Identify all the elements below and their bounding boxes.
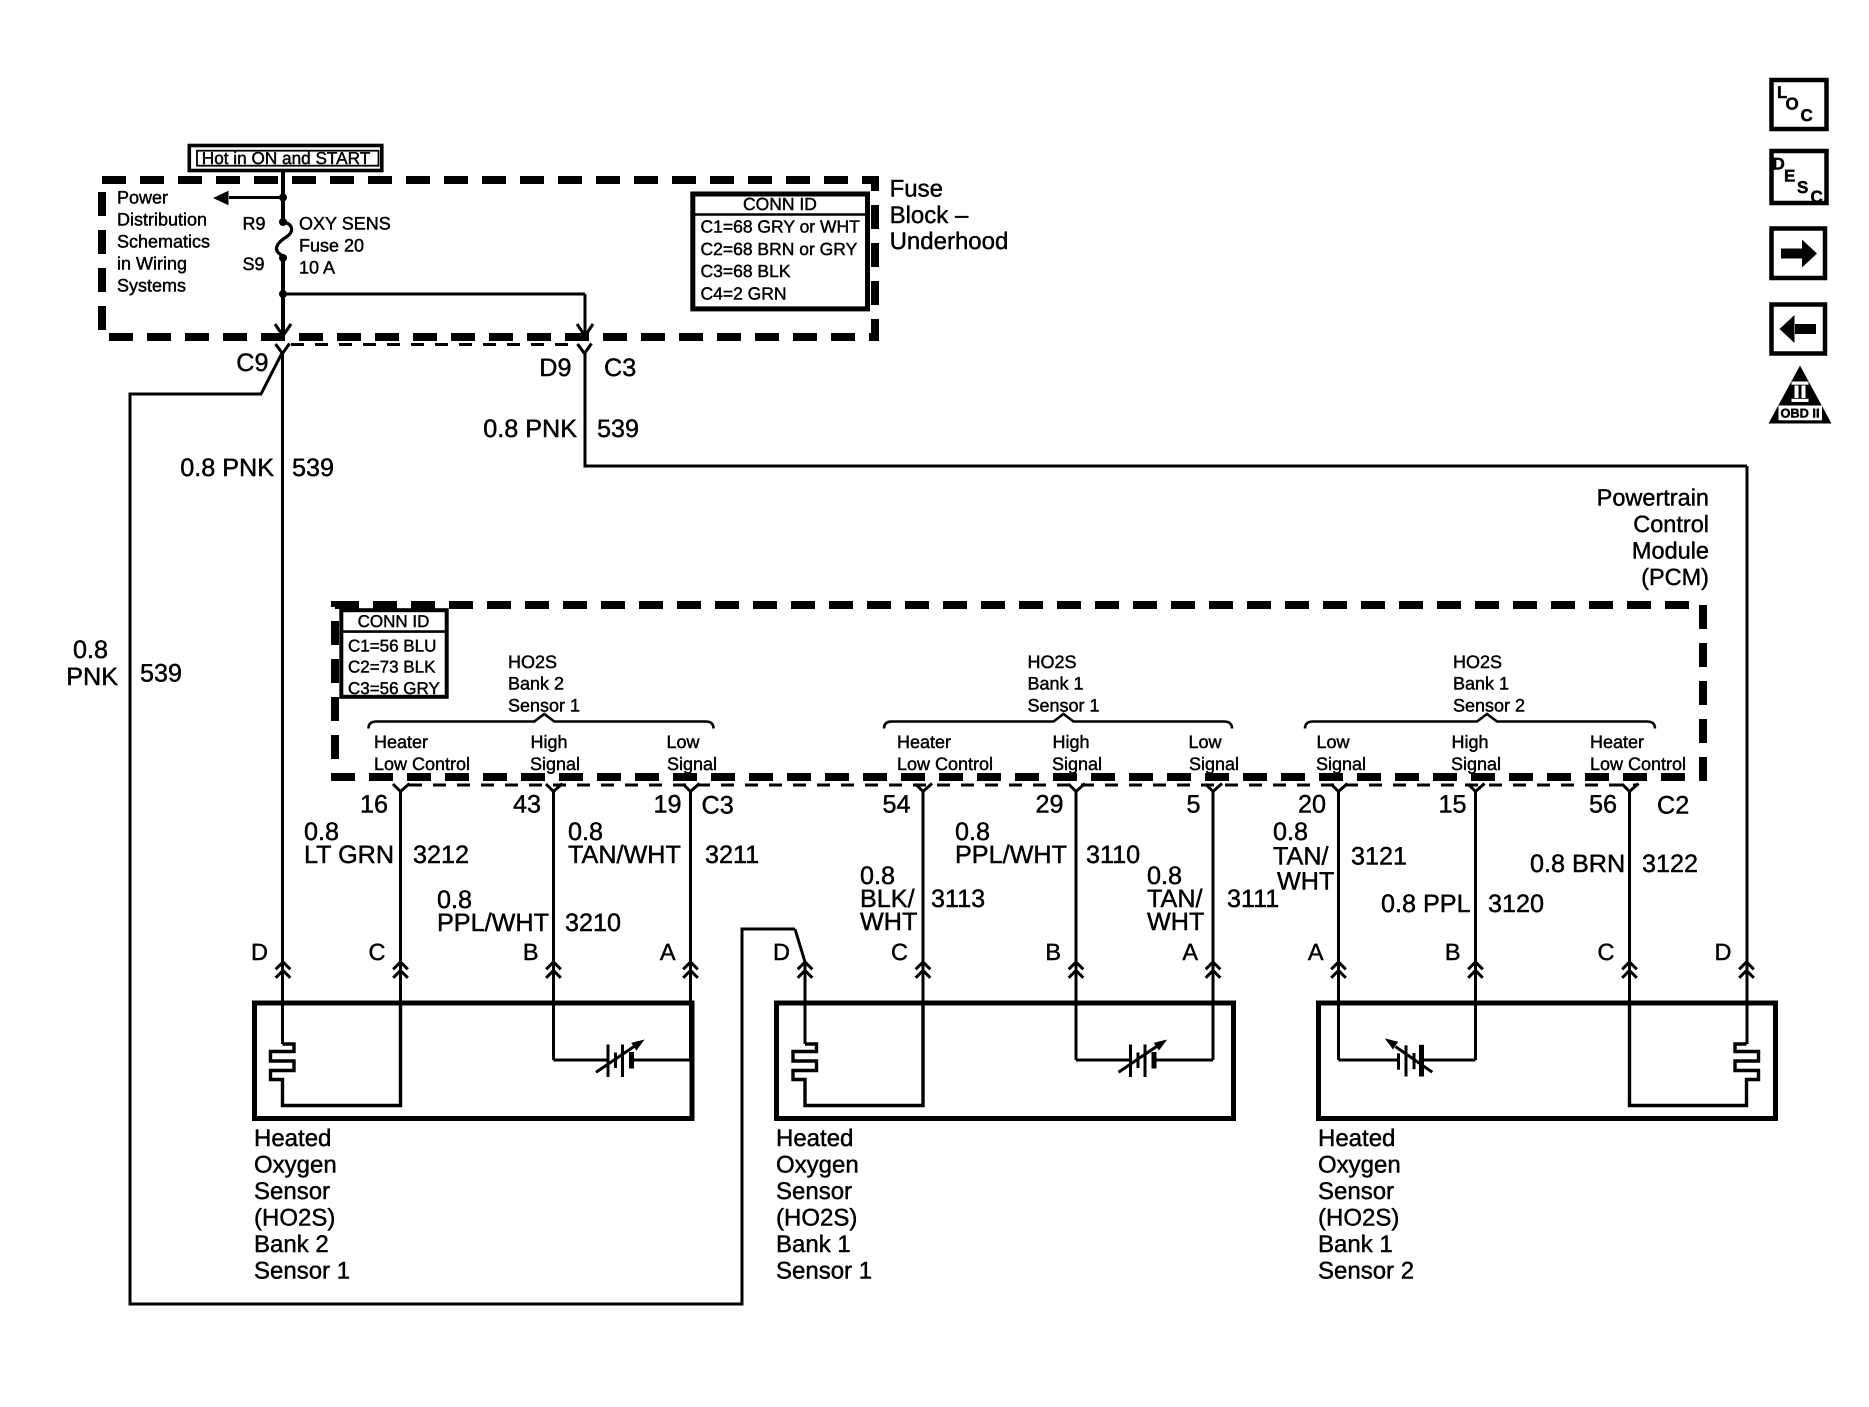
svg-text:TAN/: TAN/ <box>1273 843 1329 871</box>
svg-text:20: 20 <box>1298 791 1326 819</box>
svg-text:19: 19 <box>653 791 681 819</box>
in-line connector dashed line C9-D9 <box>291 343 577 346</box>
svg-text:C1=56 BLU: C1=56 BLU <box>348 636 436 655</box>
svg-text:3122: 3122 <box>1642 850 1698 878</box>
svg-text:Hot in ON and START: Hot in ON and START <box>202 148 371 168</box>
svg-text:Sensor 1: Sensor 1 <box>508 695 580 715</box>
svg-text:Signal: Signal <box>1316 754 1366 774</box>
svg-text:Heater: Heater <box>1590 732 1644 752</box>
svg-text:PPL/WHT: PPL/WHT <box>437 909 549 937</box>
svg-text:D: D <box>1715 939 1732 965</box>
svg-text:C: C <box>369 939 386 965</box>
heater element HO2S B2S1 (pins D-C) <box>271 1003 401 1106</box>
wire 539: branch from C9 to far left run <box>261 352 283 394</box>
svg-text:in Wiring: in Wiring <box>117 254 187 274</box>
svg-text:Schematics: Schematics <box>117 232 210 252</box>
svg-text:S: S <box>1797 178 1808 197</box>
wire PPL/WHT 3110 from pin 29 <box>1075 792 1078 1004</box>
svg-text:Sensor: Sensor <box>1318 1178 1394 1205</box>
svg-text:C2=73 BLK: C2=73 BLK <box>348 658 436 677</box>
svg-text:Signal: Signal <box>530 754 580 774</box>
svg-text:O: O <box>1786 95 1799 114</box>
svg-text:D: D <box>773 939 790 965</box>
wire BRN 3122 from pin 56 <box>1628 792 1631 1004</box>
svg-text:C9: C9 <box>236 349 268 377</box>
svg-text:(HO2S): (HO2S) <box>1318 1205 1399 1232</box>
svg-text:B: B <box>1445 939 1461 965</box>
svg-text:0.8 BRN: 0.8 BRN <box>1530 850 1625 878</box>
svg-text:A: A <box>1308 939 1324 965</box>
wire BLK/WHT 3113 from pin 54 <box>922 792 925 1004</box>
wire: branch over to D9 drop <box>283 293 585 296</box>
oxygen sensor element HO2S B2S1 (pins B-A) <box>552 1003 555 1060</box>
svg-text:Sensor 2: Sensor 2 <box>1453 695 1525 715</box>
svg-text:C2=68 BRN or GRY: C2=68 BRN or GRY <box>701 239 858 259</box>
PCM dashed outline <box>335 605 1703 777</box>
svg-text:C: C <box>1801 106 1813 125</box>
svg-text:5: 5 <box>1186 791 1200 819</box>
pin 16 connector <box>393 784 410 792</box>
brace: HO2S Bank 1 Sensor 1 pins <box>884 714 1232 729</box>
svg-text:C3=68 BLK: C3=68 BLK <box>701 261 791 281</box>
connector D9 / C3 <box>578 344 592 354</box>
icon: DESC button <box>1772 151 1827 203</box>
svg-text:WHT: WHT <box>860 908 917 936</box>
svg-text:B: B <box>523 939 539 965</box>
svg-text:3212: 3212 <box>413 841 469 869</box>
icon: OBD II triangle <box>1769 366 1832 424</box>
CONN ID table (fuse block underhood) <box>693 194 868 309</box>
svg-text:(HO2S): (HO2S) <box>254 1205 335 1232</box>
svg-text:Control: Control <box>1633 511 1709 537</box>
svg-text:C1=68 GRY or WHT: C1=68 GRY or WHT <box>701 216 861 236</box>
svg-text:Sensor 1: Sensor 1 <box>254 1258 350 1285</box>
svg-text:Sensor 1: Sensor 1 <box>776 1258 872 1285</box>
svg-text:0.8 PPL: 0.8 PPL <box>1381 890 1471 918</box>
svg-text:Heater: Heater <box>897 732 951 752</box>
svg-text:Distribution: Distribution <box>117 210 207 230</box>
svg-text:Low: Low <box>1188 732 1222 752</box>
svg-text:Bank 1: Bank 1 <box>776 1231 851 1258</box>
heater element HO2S B1S1 (pins D-C) <box>793 1003 923 1106</box>
svg-text:Signal: Signal <box>1451 754 1501 774</box>
svg-text:Heated: Heated <box>1318 1125 1395 1152</box>
wire PPL/WHT 3210 from pin 43 <box>552 792 555 1004</box>
wire TAN/WHT 3211 from pin 19 <box>689 792 692 1004</box>
pin 43 connector <box>546 784 563 792</box>
svg-text:D: D <box>251 939 268 965</box>
oxygen sensor element HO2S B1S1 (pins B-A) <box>1075 1003 1078 1060</box>
svg-text:Bank 1: Bank 1 <box>1318 1231 1393 1258</box>
svg-text:3121: 3121 <box>1351 843 1407 871</box>
brace: HO2S Bank 1 Sensor 2 pins <box>1305 714 1655 729</box>
arrow to power distribution <box>229 196 283 199</box>
svg-text:15: 15 <box>1438 791 1466 819</box>
svg-text:C3=56 GRY: C3=56 GRY <box>348 679 440 698</box>
svg-text:Low: Low <box>666 732 700 752</box>
svg-text:Oxygen: Oxygen <box>1318 1152 1401 1179</box>
svg-text:Bank 2: Bank 2 <box>508 674 564 694</box>
icon: LOC button <box>1772 80 1827 129</box>
svg-text:3210: 3210 <box>565 909 621 937</box>
pin 29 connector <box>1069 784 1086 792</box>
svg-text:C4=2 GRN: C4=2 GRN <box>701 284 787 304</box>
svg-text:(HO2S): (HO2S) <box>776 1205 857 1232</box>
node: branch to D9 <box>279 290 287 298</box>
wire PPL 3120 from pin 15 <box>1474 792 1477 1004</box>
svg-text:C: C <box>891 939 908 965</box>
svg-text:Bank 1: Bank 1 <box>1028 674 1084 694</box>
svg-text:Module: Module <box>1632 538 1709 564</box>
svg-text:Bank 1: Bank 1 <box>1453 674 1509 694</box>
icon: forward arrow button <box>1772 229 1826 279</box>
svg-text:C3: C3 <box>702 792 734 820</box>
svg-text:Heater: Heater <box>374 732 428 752</box>
svg-text:Underhood: Underhood <box>890 228 1009 255</box>
svg-text:Low Control: Low Control <box>374 754 470 774</box>
pin 5 connector <box>1206 784 1223 792</box>
svg-text:Heated: Heated <box>254 1125 331 1152</box>
wire TAN/WHT 3121 from pin 20 <box>1337 792 1340 1004</box>
svg-text:3113: 3113 <box>931 885 985 913</box>
svg-text:Fuse: Fuse <box>890 176 943 203</box>
label: Hot in ON and START box <box>189 146 381 171</box>
node S9 <box>279 254 287 262</box>
svg-text:High: High <box>530 732 567 752</box>
svg-text:Signal: Signal <box>1052 754 1102 774</box>
wire into HO2S B1S1 pin D <box>804 962 807 1044</box>
svg-text:Block –: Block – <box>890 202 969 229</box>
svg-text:3211: 3211 <box>705 841 759 869</box>
HO2S Bank 2 Sensor 1 box <box>255 1003 693 1119</box>
arrowhead at C9 exit <box>275 324 291 336</box>
svg-text:C: C <box>1598 939 1615 965</box>
pin 15 connector <box>1468 784 1485 792</box>
svg-text:0.8 PNK: 0.8 PNK <box>180 454 274 482</box>
wire 539: C9 down to HO2S B2S1 pin D <box>281 352 284 1044</box>
svg-text:Low Control: Low Control <box>897 754 993 774</box>
svg-text:R9: R9 <box>242 214 265 234</box>
svg-text:Heated: Heated <box>776 1125 853 1152</box>
svg-text:High: High <box>1451 732 1488 752</box>
svg-text:Sensor 2: Sensor 2 <box>1318 1258 1414 1285</box>
wire LT GRN 3212 from pin 16 <box>399 792 402 1004</box>
svg-text:C2: C2 <box>1657 792 1689 820</box>
svg-text:Oxygen: Oxygen <box>776 1152 859 1179</box>
svg-text:Powertrain: Powertrain <box>1597 485 1709 511</box>
svg-text:Signal: Signal <box>1189 754 1239 774</box>
svg-text:HO2S: HO2S <box>1453 652 1502 672</box>
svg-text:Sensor: Sensor <box>254 1178 330 1205</box>
svg-text:OXY SENS: OXY SENS <box>299 214 391 234</box>
svg-text:56: 56 <box>1589 791 1617 819</box>
svg-text:3110: 3110 <box>1086 841 1140 869</box>
svg-text:Systems: Systems <box>117 276 186 296</box>
svg-text:Low: Low <box>1316 732 1350 752</box>
svg-text:E: E <box>1784 166 1795 185</box>
svg-text:A: A <box>660 939 676 965</box>
svg-text:539: 539 <box>597 415 639 443</box>
svg-text:OBD II: OBD II <box>1780 406 1819 421</box>
svg-text:TAN/WHT: TAN/WHT <box>568 841 681 869</box>
fuse F20 OXY SENS 10A <box>276 222 291 258</box>
wire 539: D9 down and over to HO2S B1S2 pin D <box>584 354 587 467</box>
svg-text:WHT: WHT <box>1277 868 1334 896</box>
svg-text:Signal: Signal <box>667 754 717 774</box>
node: branch to power distribution <box>279 194 287 202</box>
icon: back arrow button <box>1772 305 1826 354</box>
svg-text:0.8: 0.8 <box>73 636 108 664</box>
wire 539: bottom run to HO2S B1S1 pin D <box>129 1303 743 1306</box>
svg-text:29: 29 <box>1035 791 1063 819</box>
svg-text:(PCM): (PCM) <box>1641 564 1709 590</box>
svg-text:A: A <box>1182 939 1198 965</box>
svg-text:S9: S9 <box>242 254 264 274</box>
pin 20 connector <box>1331 784 1348 792</box>
svg-text:D9: D9 <box>539 354 571 382</box>
svg-text:54: 54 <box>882 791 910 819</box>
svg-text:539: 539 <box>140 660 182 688</box>
svg-text:HO2S: HO2S <box>508 652 557 672</box>
svg-text:3111: 3111 <box>1227 885 1279 913</box>
heater element HO2S B1S2 (pins D-C) <box>1630 1003 1759 1106</box>
svg-text:LT GRN: LT GRN <box>304 841 394 869</box>
svg-text:Low Control: Low Control <box>1590 754 1686 774</box>
arrowhead at D9 exit <box>577 324 593 336</box>
oxygen sensor element HO2S B1S2 (pins A-B) <box>1337 1003 1340 1060</box>
svg-text:C: C <box>1811 188 1823 207</box>
svg-text:539: 539 <box>292 454 334 482</box>
svg-text:D: D <box>1773 155 1785 174</box>
pin 56 connector <box>1622 784 1639 792</box>
svg-text:B: B <box>1045 939 1061 965</box>
wire: hot feed into fuse <box>281 172 285 222</box>
PCM connector dashed line <box>409 784 1638 787</box>
pin 54 connector <box>916 784 933 792</box>
svg-text:43: 43 <box>513 791 541 819</box>
wire: fuse output down <box>281 258 285 334</box>
svg-text:Oxygen: Oxygen <box>254 1152 337 1179</box>
svg-text:0.8 PNK: 0.8 PNK <box>483 415 577 443</box>
svg-text:16: 16 <box>360 791 388 819</box>
svg-text:Fuse 20: Fuse 20 <box>299 236 364 256</box>
pin 19 connector <box>683 784 700 792</box>
wire TAN/WHT 3111 from pin 5 <box>1212 792 1215 1004</box>
node R9 <box>279 218 287 226</box>
CONN ID table (PCM) <box>341 610 446 697</box>
HO2S Bank 1 Sensor 2 box <box>1319 1003 1776 1119</box>
svg-text:Sensor: Sensor <box>776 1178 852 1205</box>
svg-text:10 A: 10 A <box>299 258 335 278</box>
svg-text:PPL/WHT: PPL/WHT <box>955 841 1067 869</box>
svg-text:CONN ID: CONN ID <box>743 194 817 214</box>
svg-text:HO2S: HO2S <box>1028 652 1077 672</box>
brace: HO2S Bank 2 Sensor 1 pins <box>369 714 714 729</box>
fuse block underhood dashed outline <box>102 180 875 337</box>
svg-text:C3: C3 <box>604 354 636 382</box>
svg-text:WHT: WHT <box>1147 908 1204 936</box>
connector C9 <box>276 344 290 354</box>
svg-text:Bank 2: Bank 2 <box>254 1231 329 1258</box>
wire 539: far left vertical run <box>129 393 132 1305</box>
svg-text:High: High <box>1052 732 1089 752</box>
svg-text:PNK: PNK <box>66 663 118 691</box>
svg-text:Power: Power <box>117 188 168 208</box>
svg-text:3120: 3120 <box>1488 890 1544 918</box>
HO2S Bank 1 Sensor 1 box <box>777 1003 1234 1119</box>
svg-text:CONN ID: CONN ID <box>358 612 430 631</box>
